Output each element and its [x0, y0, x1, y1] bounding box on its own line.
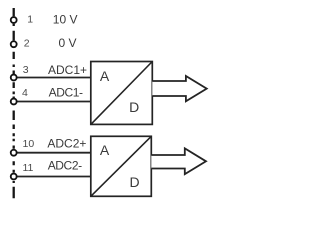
ADC converter U1 box: [91, 62, 153, 125]
ADC converter U2 box: [91, 136, 152, 196]
svg-text:3: 3: [23, 64, 29, 76]
pin 2 socket circle: [11, 41, 17, 47]
svg-text:ADC2+: ADC2+: [47, 136, 86, 150]
pin 1 socket circle: [11, 17, 17, 23]
pin 3 socket circle: [11, 75, 17, 81]
svg-text:2: 2: [24, 37, 30, 49]
svg-text:0 V: 0 V: [59, 36, 77, 50]
svg-text:10: 10: [23, 138, 35, 150]
svg-text:10 V: 10 V: [53, 13, 78, 27]
pin 10 socket circle: [11, 150, 17, 156]
svg-text:ADC2-: ADC2-: [48, 158, 82, 172]
svg-text:4: 4: [22, 87, 28, 99]
ADC U1 diagonal: [91, 62, 152, 124]
svg-text:A: A: [100, 142, 110, 158]
output block arrow 1: [152, 76, 206, 101]
svg-text:1: 1: [27, 14, 33, 26]
ADC U2 diagonal: [91, 137, 151, 196]
svg-text:ADC1-: ADC1-: [49, 85, 83, 99]
pin 11 socket circle: [11, 174, 17, 180]
wire pin4 to ADC1: [17, 101, 92, 103]
svg-text:11: 11: [23, 162, 34, 174]
svg-text:D: D: [129, 174, 139, 190]
pin 4 socket circle: [11, 99, 17, 105]
svg-text:A: A: [100, 68, 110, 84]
wire pin10 to ADC2: [17, 152, 92, 154]
svg-text:D: D: [129, 99, 139, 115]
wire pin11 to ADC2: [17, 176, 92, 178]
wire pin3 to ADC1: [17, 77, 92, 79]
output block arrow 2: [151, 148, 206, 174]
connector boundary dash-dot line: [13, 8, 15, 198]
svg-text:ADC1+: ADC1+: [48, 63, 87, 77]
